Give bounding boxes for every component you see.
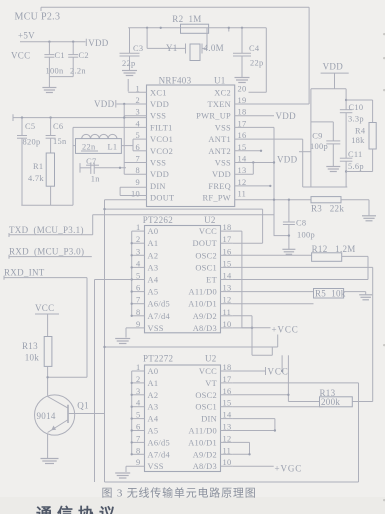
svg-text:A10/D1: A10/D1 [188, 300, 217, 309]
svg-text:100n: 100n [46, 67, 64, 76]
node RXD_INT label [4, 267, 87, 279]
svg-text:RXD_INT: RXD_INT [4, 267, 45, 277]
op-amp U2 PT2272 IC body [143, 354, 221, 472]
svg-text:U2: U2 [204, 215, 216, 225]
svg-text:A11/D0: A11/D0 [189, 427, 217, 436]
svg-text:DOUT: DOUT [193, 239, 217, 248]
svg-text:A3: A3 [148, 263, 159, 272]
wire VDD drop to divider [311, 73, 346, 109]
wire pin10 down link [252, 316, 272, 356]
power +5V label [18, 31, 35, 41]
junction crystal rail right [160, 27, 162, 29]
resistor R1 4.7k [28, 153, 55, 205]
svg-text:R4: R4 [355, 127, 366, 136]
svg-text:A6/d5: A6/d5 [148, 300, 170, 309]
wire VSS pin14 right [235, 162, 274, 164]
node VDD label right of pin14 [277, 155, 298, 165]
wire RF_PW pin11 to R3 [235, 199, 311, 201]
wire VCC to R13 [47, 314, 49, 337]
svg-text:U1: U1 [214, 76, 226, 86]
svg-text:VCC: VCC [199, 227, 217, 236]
svg-text:VSS: VSS [215, 123, 231, 132]
svg-text:PT2272: PT2272 [143, 354, 173, 364]
capacitor C3 22p [120, 28, 144, 70]
svg-text:9014: 9014 [37, 411, 56, 421]
wire C9 block bottom rail [303, 186, 348, 188]
ground right of R3 [362, 216, 376, 221]
svg-text:C6: C6 [53, 122, 63, 131]
capacitor C9 100p [310, 89, 340, 187]
wire U2b A8/D3 pin10 to +VCC [233, 465, 274, 467]
svg-text:A10/D1: A10/D1 [188, 438, 217, 447]
svg-text:RXD (MCU_P3.0): RXD (MCU_P3.0) [9, 246, 84, 256]
svg-text:C10: C10 [349, 103, 364, 112]
resistor R13 10k [22, 337, 52, 367]
U1 pin 8 stub [124, 173, 146, 175]
U2a left pin numbers 1-9 [136, 223, 141, 329]
wire U1 DOUT route down [105, 200, 147, 414]
wire U2a VCC pin18 to +VCC [233, 231, 271, 329]
svg-text:U2: U2 [205, 354, 217, 364]
svg-text:C8: C8 [296, 219, 306, 228]
svg-text:C1: C1 [55, 51, 65, 60]
svg-text:DIN: DIN [150, 182, 166, 191]
svg-text:A1: A1 [148, 379, 159, 388]
bottom partial dark heading [36, 505, 120, 514]
op-amp U1 NRF403 IC body [147, 76, 235, 207]
ground below C3 [122, 71, 137, 76]
junction C2 top [72, 41, 74, 43]
svg-text:Y1: Y1 [166, 43, 178, 53]
svg-text:L1: L1 [108, 143, 118, 152]
resistor R12 1.2M on OSC2 [233, 244, 368, 280]
resistor R2 1M [172, 14, 208, 34]
junction collector node [46, 376, 48, 378]
svg-text:100p: 100p [297, 231, 315, 240]
capacitor C6 15n [46, 118, 67, 153]
svg-text:22n: 22n [82, 143, 96, 152]
svg-text:10k: 10k [25, 353, 40, 363]
wire U2a ET pin14 right [233, 279, 368, 281]
ground below C1 C2 [42, 88, 56, 93]
U2a right stubs [221, 231, 233, 328]
wire U2a OSC1 pin15 right [233, 267, 373, 401]
U1 left pin numbers 1-10 [131, 84, 140, 198]
svg-text:R12 1.2M: R12 1.2M [312, 244, 356, 254]
U1 right pin labels [196, 88, 231, 202]
U2b left pin numbers 1-9 [136, 363, 141, 467]
svg-text:VCC: VCC [35, 303, 54, 313]
ground below U2b VSS [115, 473, 130, 478]
wire right VSS bus vertical [273, 127, 275, 235]
U1 right pin numbers 20-11 [238, 84, 247, 198]
wire C1-C2 bottom rail [49, 77, 73, 87]
svg-text:VSS: VSS [150, 159, 166, 168]
power +VCC label mid right [272, 324, 299, 334]
wire emitter to ground [47, 434, 49, 459]
svg-text:A7/d4: A7/d4 [148, 312, 171, 321]
transistor Q1 9014 [35, 395, 89, 435]
junction divider bottom [345, 170, 347, 172]
svg-text:通信协议: 通信协议 [36, 505, 120, 514]
U1 pin 7 stub [124, 162, 146, 164]
svg-text:Q1: Q1 [77, 401, 89, 411]
wire ANT2 pin15 stub [235, 150, 262, 152]
svg-text:DOUT: DOUT [150, 194, 174, 203]
svg-text:A0: A0 [148, 367, 159, 376]
op-amp U2 PT2262 IC body [143, 215, 221, 333]
power VCC label at U2b pin18 [233, 367, 289, 377]
svg-text:A3: A3 [148, 403, 159, 412]
U2b right pin numbers 18-10 [223, 363, 232, 467]
wire ANT1 pin16 to C9 block [235, 139, 303, 187]
wire RXD_INT to collector [48, 278, 87, 378]
svg-text:C11: C11 [348, 150, 363, 159]
svg-text:C4: C4 [249, 44, 260, 53]
svg-text:VDD: VDD [212, 170, 231, 179]
ground below C4 [235, 78, 250, 83]
page edge marks [383, 33, 385, 501]
svg-text:VDD: VDD [276, 111, 297, 121]
resistor R3 22k [311, 197, 369, 216]
svg-text:100p: 100p [310, 142, 328, 151]
svg-text:VDD: VDD [277, 155, 298, 165]
capacitor C8 100p [283, 200, 315, 249]
svg-text:OSC1: OSC1 [195, 263, 217, 272]
svg-text:11: 11 [238, 190, 247, 199]
svg-text:A8/D3: A8/D3 [193, 324, 217, 333]
svg-text:A1: A1 [148, 239, 159, 248]
svg-text:A9/D2: A9/D2 [193, 450, 217, 459]
wire data bus bottom [103, 335, 277, 349]
svg-text:VCO1: VCO1 [150, 135, 173, 144]
svg-text:R13: R13 [22, 341, 38, 351]
wire FREQ pin12 stub [235, 185, 272, 187]
wire rail down to XC2 [249, 28, 267, 93]
junction rail tick C4 [241, 27, 243, 29]
wire U1 left bus [123, 104, 125, 174]
svg-text:XC1: XC1 [150, 88, 167, 97]
svg-text:NRF403: NRF403 [159, 76, 192, 86]
svg-text:A2: A2 [148, 391, 159, 400]
capacitor C5 820p [17, 118, 40, 206]
ground below C9 [326, 167, 340, 172]
svg-text:A4: A4 [148, 276, 159, 285]
svg-text:C9: C9 [312, 131, 322, 140]
svg-text:VCC: VCC [268, 367, 289, 377]
resistor R5 10k on A11 [233, 289, 366, 299]
svg-text:PWR_UP: PWR_UP [196, 112, 231, 121]
svg-text:4.7k: 4.7k [28, 174, 44, 183]
ground below C8 [282, 249, 295, 254]
svg-text:VCC: VCC [199, 367, 217, 376]
wire U2b OSC2 pin16 right [233, 394, 290, 396]
wire U2a A8/D3 pin10 route [233, 327, 253, 329]
svg-text:20: 20 [238, 84, 247, 93]
svg-text:A2: A2 [148, 251, 159, 260]
node VDD label right of pin18 [276, 111, 297, 121]
caption figure 3 [102, 486, 257, 500]
node TXD label [9, 225, 93, 237]
svg-text:图 3 无线传输单元电路原理图: 图 3 无线传输单元电路原理图 [102, 486, 257, 500]
capacitor C7 1n [80, 157, 126, 184]
ground right of R5 [359, 295, 372, 300]
wire FILT1 pin 4 to filter loop [73, 127, 147, 205]
wire U2b OSC1 pin15 right [233, 406, 323, 408]
svg-text:VSS: VSS [150, 112, 166, 121]
svg-text:VCO2: VCO2 [150, 147, 173, 156]
U2a right pin labels [188, 227, 217, 333]
svg-text:+VCC: +VCC [272, 324, 299, 334]
svg-text:ET: ET [206, 276, 217, 285]
wire TXEN pin19 to top rail [235, 7, 309, 104]
inductor L1 22n [73, 134, 133, 153]
U1 pin 1 stub [128, 91, 146, 93]
svg-text:RF_PW: RF_PW [203, 194, 232, 203]
svg-text:MCU P2.3: MCU P2.3 [15, 12, 61, 23]
wire top rail from MCU P2.3 to right [41, 7, 309, 11]
wire U2a A9/D2 pin11 to riser [233, 315, 252, 317]
wire U2b address bus [131, 371, 145, 455]
power VCC label [11, 51, 30, 61]
node VDD label at U1 pin 2 [94, 99, 116, 109]
U1 pin 10 stub [120, 187, 146, 195]
svg-text:3.3p: 3.3p [348, 115, 364, 124]
node MCU P2.3 label [15, 12, 61, 23]
wire VSS pin17 right [235, 126, 274, 128]
wire C8 side link [274, 234, 290, 236]
junction rail tick A [228, 27, 230, 32]
junction left rail at U1 bus [123, 116, 125, 118]
svg-text:FREQ: FREQ [208, 182, 231, 191]
junction C6 top [49, 116, 51, 118]
svg-text:TXD (MCU_P3.1): TXD (MCU_P3.1) [9, 225, 84, 235]
svg-text:5.6p: 5.6p [348, 162, 364, 171]
wire R13 to collector [47, 366, 49, 395]
wire crystal net rail [128, 27, 266, 29]
svg-text:DIN: DIN [201, 415, 217, 424]
power VDD label top right [321, 62, 349, 74]
resistor R4 18k parallel branch [346, 100, 376, 172]
node VDD label top-left [86, 38, 108, 48]
svg-text:VSS: VSS [148, 324, 164, 333]
U2a left pin labels [148, 227, 171, 333]
junction VDD bus pin2 [123, 103, 125, 105]
svg-text:VDD: VDD [150, 100, 169, 109]
svg-text:22p: 22p [122, 59, 135, 68]
svg-text:A5: A5 [148, 427, 159, 436]
wire TXD route [93, 215, 274, 235]
power VCC label above R13 [35, 303, 59, 314]
wire U2b pin12 pin11 link [233, 442, 251, 455]
svg-text:VDD: VDD [323, 62, 344, 72]
capacitor C4 22p [233, 28, 263, 77]
svg-text:C5: C5 [25, 122, 35, 131]
U1 pin5 pin6 stubs to L1 [133, 139, 147, 151]
wire R13 left riser [287, 355, 289, 401]
svg-text:+5V: +5V [18, 31, 35, 41]
U1 pin 3 stub [124, 115, 146, 117]
wire filter bottom rail [21, 204, 73, 206]
power +VCC label bottom right [275, 464, 303, 474]
wire PWR_UP pin18 to VDD [235, 115, 274, 117]
svg-text:C3: C3 [133, 44, 143, 53]
svg-text:18k: 18k [351, 136, 365, 145]
svg-text:R1: R1 [33, 162, 43, 171]
wire VDD pin13 to pin14 net [235, 163, 254, 175]
junction C7 right [119, 167, 121, 169]
svg-text:C2: C2 [79, 51, 89, 60]
wire VDD into C9 block [299, 151, 311, 153]
svg-text:ANT2: ANT2 [208, 147, 231, 156]
U2b VSS pin 9 stub [126, 466, 145, 472]
wire receiver box left edge [95, 280, 132, 483]
U2a VSS pin 9 stub [126, 328, 145, 338]
svg-text:OSC2: OSC2 [195, 251, 217, 260]
wire +5V rail [20, 41, 86, 43]
svg-text:VSS: VSS [215, 159, 231, 168]
svg-text:2.2n: 2.2n [70, 67, 86, 76]
wire U2a address bus [131, 231, 145, 317]
svg-text:XC2: XC2 [214, 88, 231, 97]
svg-text:A7/d4: A7/d4 [148, 450, 171, 459]
wire VDD to U1 pin 2 [117, 103, 147, 105]
wire U2b pin14 pin13 link [233, 419, 276, 432]
crystal Y1 4.0M [147, 28, 224, 61]
svg-text:VCC: VCC [11, 51, 30, 61]
svg-text:R5 10k: R5 10k [315, 289, 346, 299]
junction pin13 riser [252, 161, 254, 163]
svg-text:ANT1: ANT1 [208, 135, 231, 144]
svg-text:R3 22k: R3 22k [311, 203, 344, 213]
junction C1 top [48, 41, 50, 43]
resistor R13 200k [288, 388, 372, 407]
capacitor C1 100n [44, 42, 64, 77]
U2b left pin labels [148, 367, 171, 471]
svg-text:VDD: VDD [94, 99, 115, 109]
svg-text:A6/d5: A6/d5 [148, 438, 170, 447]
U1 pin 9 stub [120, 186, 146, 188]
svg-text:4.0M: 4.0M [204, 43, 224, 53]
U2a right pin numbers 18-10 [223, 223, 232, 329]
svg-text:VDD: VDD [150, 170, 169, 179]
svg-text:A9/D2: A9/D2 [193, 312, 217, 321]
svg-text:FILT1: FILT1 [150, 123, 173, 132]
svg-text:15n: 15n [53, 137, 67, 146]
capacitor C11 5.6p [340, 150, 364, 187]
ground below U2a VSS [115, 339, 130, 344]
U2b right pin labels [188, 367, 217, 471]
node RXD label [9, 246, 92, 258]
wire C3 node to XC1 pin [127, 79, 129, 92]
svg-text:A11/D0: A11/D0 [189, 288, 217, 297]
svg-text:VT: VT [205, 379, 217, 388]
wire left input rail [13, 114, 147, 121]
U2b right stubs [221, 371, 233, 466]
svg-text:22p: 22p [250, 59, 263, 68]
svg-text:820p: 820p [23, 138, 41, 147]
wire U2a A10/D1 pin12 right [233, 303, 314, 305]
wire U2b VT pin17 to Q1 base loop [105, 383, 359, 482]
capacitor C2 2.2n [68, 42, 89, 77]
svg-text:OSC1: OSC1 [195, 403, 217, 412]
wire VCC riser [281, 355, 283, 372]
wire DOUT横 to PT2262 DOUT [103, 208, 262, 210]
wire Q1 base [69, 413, 105, 415]
U1 left pin labels [150, 88, 174, 202]
ground below Q1 [41, 459, 59, 464]
svg-text:200k: 200k [321, 397, 340, 407]
svg-text:R2 1M: R2 1M [172, 14, 201, 24]
svg-text:TXEN: TXEN [207, 100, 231, 109]
junction C5 top [21, 116, 23, 118]
svg-text:A8/D3: A8/D3 [193, 462, 217, 471]
svg-text:1n: 1n [91, 175, 100, 184]
junction divider top [345, 99, 347, 101]
svg-text:A0: A0 [148, 227, 159, 236]
svg-text:+VGC: +VGC [275, 464, 303, 474]
svg-text:VDD: VDD [88, 38, 109, 48]
junction crystal rail left [146, 27, 148, 29]
svg-text:9: 9 [136, 178, 141, 187]
svg-text:VSS: VSS [148, 462, 164, 471]
capacitor C10 3.3p [340, 103, 364, 158]
svg-text:OSC2: OSC2 [195, 391, 217, 400]
junction C8 top at R3 wire [288, 199, 290, 201]
svg-text:PT2262: PT2262 [143, 215, 173, 225]
svg-text:10: 10 [131, 190, 140, 199]
svg-text:A5: A5 [148, 288, 159, 297]
wire U2a DOUT pin17 from U1 DOUT [233, 209, 263, 243]
svg-text:A4: A4 [148, 415, 159, 424]
